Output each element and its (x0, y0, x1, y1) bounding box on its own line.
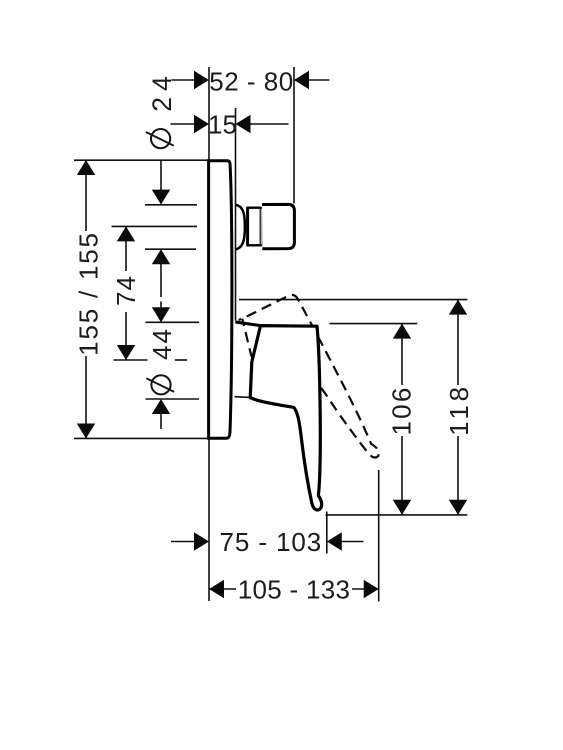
svg-text:106: 106 (387, 386, 417, 436)
svg-text:118: 118 (444, 383, 474, 436)
svg-text:44: 44 (147, 327, 177, 360)
svg-text:75 - 103: 75 - 103 (219, 527, 322, 557)
svg-text:52 - 80: 52 - 80 (209, 67, 293, 97)
svg-text:15: 15 (208, 110, 237, 140)
svg-text:155 / 155: 155 / 155 (73, 231, 103, 356)
svg-text:24: 24 (147, 70, 177, 112)
svg-text:74: 74 (111, 275, 141, 306)
svg-text:105 - 133: 105 - 133 (238, 575, 351, 605)
